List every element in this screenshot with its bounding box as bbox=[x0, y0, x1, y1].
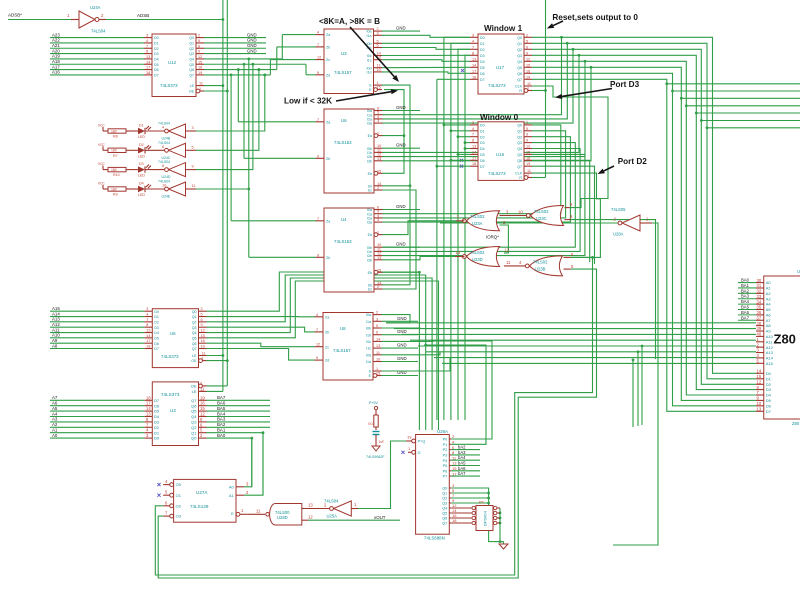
svg-text:19: 19 bbox=[526, 162, 530, 166]
svg-text:14: 14 bbox=[146, 334, 150, 338]
svg-text:D5: D5 bbox=[480, 66, 485, 70]
svg-text:U24A: U24A bbox=[90, 5, 101, 10]
svg-text:A20: A20 bbox=[52, 48, 60, 53]
wire U23A output to U4 Ea bbox=[382, 221, 456, 235]
svg-text:16: 16 bbox=[526, 156, 530, 160]
IC U9 Z80 CPU bbox=[756, 269, 800, 426]
svg-text:15: 15 bbox=[452, 466, 457, 471]
svg-text:Q4: Q4 bbox=[517, 60, 522, 64]
svg-text:19: 19 bbox=[201, 345, 205, 349]
wire memory bus exit 6 bbox=[706, 126, 800, 129]
svg-text:D6: D6 bbox=[480, 159, 485, 163]
svg-text:74LS373: 74LS373 bbox=[161, 354, 179, 359]
wire U8 I0a to band A8 bbox=[382, 315, 411, 323]
svg-text:16: 16 bbox=[200, 401, 205, 406]
svg-text:4: 4 bbox=[316, 313, 318, 317]
wire U26A P0 up bbox=[431, 340, 492, 439]
wire net O2 strobe U23B input6 to U27A O2 bbox=[155, 257, 592, 575]
svg-text:D5: D5 bbox=[154, 336, 159, 340]
svg-text:D7: D7 bbox=[766, 409, 772, 414]
LED D3 bbox=[126, 162, 151, 178]
wire U6 S0 branch bbox=[382, 185, 410, 187]
svg-text:5: 5 bbox=[192, 145, 194, 149]
svg-text:31: 31 bbox=[757, 283, 762, 288]
wire net BA6 to Z80 A6 bbox=[738, 310, 756, 315]
svg-text:3: 3 bbox=[146, 307, 148, 311]
svg-text:U16: U16 bbox=[496, 152, 505, 157]
svg-text:bA7: bA7 bbox=[458, 471, 466, 476]
svg-text:U23C: U23C bbox=[536, 216, 547, 221]
svg-text:13: 13 bbox=[376, 344, 380, 348]
svg-text:A18: A18 bbox=[52, 59, 60, 64]
svg-text:S1: S1 bbox=[368, 288, 372, 292]
unconnected marker U17 D6 bbox=[461, 69, 464, 72]
svg-text:Zb: Zb bbox=[326, 157, 330, 161]
wire net GND from U12 Q2 bbox=[204, 43, 266, 48]
wire U23C input8 dead-end vertical bbox=[571, 220, 656, 359]
svg-text:A14: A14 bbox=[766, 356, 774, 361]
svg-text:BA3: BA3 bbox=[217, 417, 226, 422]
IC U6 74LS153 multiplexer bbox=[316, 107, 383, 194]
svg-text:14: 14 bbox=[146, 406, 151, 411]
svg-text:D6: D6 bbox=[154, 342, 159, 346]
NOR gate U23C 74LS02 bbox=[526, 202, 573, 226]
svg-text:D2: D2 bbox=[154, 320, 159, 324]
IC U17 74LS273 bank register window 1 bbox=[470, 33, 532, 94]
svg-text:Q4: Q4 bbox=[442, 507, 447, 511]
wire dead-end vertical 1 bbox=[632, 359, 635, 428]
svg-text:11: 11 bbox=[376, 351, 380, 355]
svg-text:5: 5 bbox=[198, 39, 200, 43]
wire U3 I1d to Window1 D6 bbox=[382, 72, 470, 73]
svg-text:U28D: U28D bbox=[277, 515, 288, 520]
svg-text:9: 9 bbox=[317, 154, 319, 158]
wire Window0 D2 stub bbox=[458, 136, 470, 138]
svg-text:19: 19 bbox=[200, 395, 205, 400]
inverter U28A 74LS05 bbox=[611, 207, 652, 237]
wire LED row 4 input bbox=[196, 188, 250, 191]
wire net GND on U3 I0a bbox=[382, 26, 420, 32]
svg-text:2: 2 bbox=[377, 285, 379, 289]
svg-text:D1: D1 bbox=[154, 315, 159, 319]
svg-text:Zb: Zb bbox=[326, 46, 330, 50]
wire vertical Q7 branch to U4 Za bbox=[230, 74, 316, 221]
wire data bus vertical D1 bbox=[450, 43, 471, 420]
NOR gate U23D 74LS02 bbox=[455, 247, 500, 267]
svg-text:Ea: Ea bbox=[368, 233, 372, 237]
svg-text:32: 32 bbox=[757, 289, 762, 294]
svg-text:7: 7 bbox=[317, 118, 319, 122]
svg-text:15: 15 bbox=[526, 150, 530, 154]
power VCC flag for RC chain bbox=[369, 401, 378, 415]
svg-text:3: 3 bbox=[376, 317, 378, 321]
svg-text:Z80: Z80 bbox=[792, 421, 800, 426]
wire vertical net ADSB / latch-enable bus bbox=[222, 0, 225, 391]
wire net W0Q2 from U16 Q2 bbox=[382, 137, 570, 222]
wire net GND on U4 I0b bbox=[382, 242, 420, 248]
svg-text:A1: A1 bbox=[766, 286, 772, 291]
wire net BA4 to Z80 A4 bbox=[738, 299, 756, 304]
svg-text:U17: U17 bbox=[496, 65, 505, 70]
svg-text:Q5: Q5 bbox=[192, 336, 197, 340]
svg-text:12: 12 bbox=[526, 57, 530, 61]
svg-text:6: 6 bbox=[377, 44, 379, 48]
svg-text:I0c: I0c bbox=[366, 340, 371, 344]
svg-text:5: 5 bbox=[376, 324, 378, 328]
wire net W1Q4 from U17 Q4 to Z80 D4 bbox=[532, 60, 756, 395]
wire Window0 D5 stub bbox=[457, 153, 470, 156]
wire net A23 bbox=[50, 32, 144, 37]
svg-text:A21: A21 bbox=[52, 43, 60, 48]
svg-text:OE: OE bbox=[189, 90, 195, 94]
svg-text:A13: A13 bbox=[52, 317, 60, 322]
svg-text:Eb: Eb bbox=[368, 172, 372, 176]
wire Window0 D4 stub bbox=[464, 147, 470, 150]
svg-text:14: 14 bbox=[376, 337, 380, 341]
svg-text:D0: D0 bbox=[766, 371, 772, 376]
wire dead-end vertical 2 bbox=[637, 350, 640, 426]
svg-text:1: 1 bbox=[376, 367, 378, 371]
svg-text:D6: D6 bbox=[480, 72, 485, 76]
svg-text:A11: A11 bbox=[52, 327, 60, 332]
svg-text:A13: A13 bbox=[766, 350, 774, 355]
wire U27A A0 vertical from BA0 bbox=[250, 437, 253, 487]
svg-text:Q1: Q1 bbox=[517, 129, 522, 133]
wire U12 LE to ADSB vertical bbox=[204, 84, 224, 87]
wire net W1Q0 from U17 Q0 to Z80 D0 bbox=[532, 36, 756, 373]
svg-text:D7: D7 bbox=[480, 165, 485, 169]
svg-text:U28A: U28A bbox=[613, 232, 624, 237]
svg-text:Q2: Q2 bbox=[442, 497, 447, 501]
wire branch W1Q0 to mux input bbox=[382, 37, 561, 114]
wire branch W1Q3 to mux input bbox=[382, 55, 579, 152]
svg-text:1: 1 bbox=[377, 231, 379, 235]
svg-text:GND: GND bbox=[397, 356, 407, 361]
svg-text:18: 18 bbox=[472, 75, 476, 79]
IC U5 74LS373 address latch high bbox=[144, 307, 206, 367]
svg-text:<8K=A, >8K = B: <8K=A, >8K = B bbox=[319, 17, 380, 26]
svg-text:2: 2 bbox=[377, 186, 379, 190]
wire net ADSB bbox=[106, 13, 223, 20]
svg-text:D1: D1 bbox=[154, 430, 160, 435]
svg-text:40: 40 bbox=[757, 332, 762, 337]
IC U3 74LS157 multiplexer bbox=[316, 27, 383, 93]
svg-text:A6: A6 bbox=[766, 312, 772, 317]
svg-text:A15: A15 bbox=[766, 361, 774, 366]
svg-text:12: 12 bbox=[505, 248, 510, 253]
svg-text:D0: D0 bbox=[480, 36, 485, 40]
svg-text:BA4: BA4 bbox=[741, 299, 750, 304]
svg-text:U4: U4 bbox=[341, 217, 347, 222]
svg-text:P5: P5 bbox=[443, 464, 448, 468]
wire net GND on U4 I0a bbox=[382, 204, 420, 210]
svg-text:Q5: Q5 bbox=[517, 66, 522, 70]
svg-text:P4: P4 bbox=[443, 459, 448, 463]
wire U8 I0c to band A11 bbox=[382, 340, 431, 341]
svg-text:34: 34 bbox=[757, 299, 762, 304]
svg-text:D6: D6 bbox=[154, 68, 159, 72]
wire net A1 bbox=[50, 428, 144, 433]
svg-text:38: 38 bbox=[757, 321, 762, 326]
wire vertical net OE bus from top edge bbox=[226, 0, 228, 386]
wire net A20 bbox=[50, 48, 144, 53]
wire U6 Zb from bus bbox=[244, 157, 316, 159]
svg-text:2: 2 bbox=[201, 307, 203, 311]
svg-text:VCC: VCC bbox=[98, 182, 105, 186]
svg-text:6: 6 bbox=[162, 145, 164, 149]
annotation Low if < 32K with arrow bbox=[284, 89, 398, 105]
svg-text:Q0: Q0 bbox=[189, 36, 194, 40]
wire net A13 band to Z80 bbox=[426, 351, 756, 353]
wire U23A input3 from U23C output bbox=[500, 210, 527, 216]
wire net BA2 from U2 bbox=[207, 422, 271, 427]
wire net PORTD3 U17 CLK to gate U23C input 9 bbox=[532, 86, 608, 208]
svg-text:I1c: I1c bbox=[366, 347, 371, 351]
svg-text:Q7: Q7 bbox=[189, 74, 194, 78]
wire branch W1Q2 to mux input bbox=[382, 49, 573, 123]
svg-text:BA0: BA0 bbox=[217, 433, 226, 438]
IC U4 74LS153 multiplexer bbox=[316, 206, 383, 293]
wire net BA2 to Z80 A2 bbox=[738, 288, 756, 293]
svg-text:GND: GND bbox=[247, 48, 257, 53]
svg-text:U8: U8 bbox=[340, 326, 346, 331]
svg-text:D0: D0 bbox=[480, 124, 485, 128]
wire net A15 bbox=[50, 306, 144, 311]
svg-text:D7: D7 bbox=[154, 398, 160, 403]
svg-text:xOUT: xOUT bbox=[374, 515, 386, 520]
svg-text:3: 3 bbox=[146, 34, 148, 38]
inverter U24C 74LS04 bbox=[145, 141, 196, 160]
svg-text:Q1: Q1 bbox=[192, 315, 197, 319]
svg-text:U24D: U24D bbox=[162, 175, 171, 179]
svg-text:D2: D2 bbox=[480, 135, 485, 139]
svg-text:18: 18 bbox=[472, 162, 476, 166]
wire net BA4 to U26A P4 bbox=[451, 455, 480, 460]
wire net A12 bbox=[50, 322, 144, 327]
svg-text:Q2: Q2 bbox=[517, 48, 522, 52]
svg-text:bA2: bA2 bbox=[458, 445, 466, 450]
svg-text:11: 11 bbox=[527, 169, 531, 173]
wire net A11 bbox=[50, 327, 144, 332]
svg-text:3: 3 bbox=[377, 31, 379, 35]
svg-text:D2: D2 bbox=[154, 425, 160, 430]
svg-text:I3a: I3a bbox=[367, 122, 372, 126]
svg-text:ADSB*: ADSB* bbox=[8, 13, 22, 18]
wire net A21 bbox=[50, 43, 144, 48]
svg-text:12: 12 bbox=[308, 514, 313, 519]
wire net BA5 to U26A P5 bbox=[451, 461, 480, 466]
wire net A9 band to Z80 bbox=[394, 328, 756, 330]
svg-text:180: 180 bbox=[111, 129, 117, 133]
wire net A8 band to Z80 bbox=[386, 322, 756, 324]
svg-text:I3b: I3b bbox=[367, 258, 372, 262]
wire net W0Q4 from U16 Q4 bbox=[382, 149, 580, 252]
svg-text:17: 17 bbox=[472, 69, 476, 73]
svg-text:74LS04: 74LS04 bbox=[91, 29, 106, 34]
svg-text:GND: GND bbox=[247, 32, 257, 37]
svg-text:19: 19 bbox=[407, 435, 412, 440]
svg-text:I1d: I1d bbox=[367, 71, 372, 75]
svg-text:11: 11 bbox=[192, 184, 196, 188]
svg-text:15: 15 bbox=[198, 60, 202, 64]
svg-text:BA1: BA1 bbox=[217, 428, 226, 433]
svg-text:8: 8 bbox=[146, 50, 148, 54]
wire net A2 bbox=[50, 422, 144, 427]
wire net W1Q1 from U17 Q1 to Z80 D1 bbox=[532, 42, 756, 379]
svg-text:I1a: I1a bbox=[366, 320, 371, 324]
wire memory bus exit 2 bbox=[680, 97, 800, 100]
svg-text:A17: A17 bbox=[52, 64, 60, 69]
wire switch common to ground bbox=[499, 508, 504, 543]
wire vertical Q5 branch to U6 Zb bbox=[243, 63, 246, 158]
svg-text:U23B: U23B bbox=[535, 267, 546, 272]
svg-text:bA3: bA3 bbox=[458, 450, 466, 455]
wire data bus vertical D0 bbox=[443, 37, 471, 420]
svg-text:8: 8 bbox=[472, 139, 474, 143]
svg-text:D4: D4 bbox=[766, 393, 772, 398]
svg-text:A3: A3 bbox=[766, 296, 772, 301]
svg-text:4: 4 bbox=[317, 31, 319, 35]
wire net A17 bbox=[50, 64, 144, 69]
wire U12 OE to vertical bus bbox=[204, 90, 229, 93]
svg-text:A3: A3 bbox=[52, 417, 58, 422]
svg-text:6: 6 bbox=[526, 45, 528, 49]
wire net A13 bbox=[50, 317, 144, 322]
svg-text:Q2: Q2 bbox=[192, 320, 197, 324]
svg-text:VCC: VCC bbox=[368, 422, 375, 426]
svg-text:Zb: Zb bbox=[326, 256, 330, 260]
svg-text:74LS153: 74LS153 bbox=[334, 239, 352, 244]
wire data bus vertical D7 bbox=[436, 79, 439, 420]
svg-text:LE: LE bbox=[192, 389, 197, 394]
svg-text:2: 2 bbox=[526, 33, 528, 37]
svg-text:74LS153: 74LS153 bbox=[334, 140, 352, 145]
wire dead-end vertical 3 bbox=[641, 345, 644, 425]
svg-text:4: 4 bbox=[146, 39, 148, 43]
svg-text:17: 17 bbox=[146, 339, 150, 343]
svg-text:Q7: Q7 bbox=[191, 398, 197, 403]
svg-text:I1d: I1d bbox=[366, 360, 371, 364]
svg-text:D3: D3 bbox=[154, 52, 159, 56]
svg-text:9: 9 bbox=[201, 323, 203, 327]
wire net BA5 from U2 bbox=[207, 406, 271, 411]
svg-text:A4: A4 bbox=[52, 411, 58, 416]
inverter U24D 74LS04 bbox=[145, 160, 196, 179]
svg-text:1: 1 bbox=[527, 174, 529, 178]
svg-text:D1: D1 bbox=[480, 129, 485, 133]
svg-text:Q6: Q6 bbox=[192, 342, 197, 346]
svg-text:9: 9 bbox=[316, 356, 318, 360]
svg-text:13: 13 bbox=[146, 55, 150, 59]
svg-text:A12: A12 bbox=[766, 345, 774, 350]
svg-text:A5: A5 bbox=[766, 307, 772, 312]
wire net Q4 (U12) to U3 Za bbox=[204, 35, 316, 59]
svg-text:R8: R8 bbox=[113, 135, 118, 139]
wire U5 Q7 to U8 Zd bbox=[207, 349, 315, 361]
inverter U25A 74LS04 bbox=[324, 498, 358, 518]
wire net ADSB* input bbox=[8, 13, 71, 20]
svg-text:LED: LED bbox=[138, 135, 145, 139]
svg-text:1: 1 bbox=[199, 87, 201, 91]
wire U6 S1 to U4 S1 loop bbox=[382, 190, 416, 289]
svg-text:3: 3 bbox=[192, 126, 194, 130]
wire net A14 band to Z80 bbox=[434, 357, 756, 359]
wire LED row 3 input bbox=[196, 63, 254, 170]
wire U5 LE tap bbox=[207, 354, 225, 357]
wire U23D input11 from U23B output bbox=[504, 260, 526, 266]
wire net GND on U8 pin row 4 bbox=[382, 370, 419, 376]
svg-text:Q0: Q0 bbox=[442, 487, 447, 491]
svg-text:15: 15 bbox=[376, 372, 380, 376]
svg-text:P2: P2 bbox=[443, 448, 448, 452]
wire net GND from U12 Q3 bbox=[204, 48, 266, 53]
svg-text:8: 8 bbox=[146, 323, 148, 327]
wire net Q7 (U12) to U3 Zc bbox=[204, 60, 316, 77]
unconnected marker U26A G bbox=[401, 451, 404, 454]
svg-text:O1: O1 bbox=[176, 493, 182, 498]
svg-text:11: 11 bbox=[256, 508, 261, 513]
svg-text:74LS273: 74LS273 bbox=[488, 83, 506, 88]
svg-text:A1: A1 bbox=[52, 428, 58, 433]
svg-text:A0: A0 bbox=[52, 433, 58, 438]
capacitor C7 bbox=[373, 432, 385, 447]
svg-text:19: 19 bbox=[198, 71, 202, 75]
svg-text:Q6: Q6 bbox=[517, 72, 522, 76]
svg-text:Q0: Q0 bbox=[517, 124, 522, 128]
svg-text:Q1: Q1 bbox=[442, 492, 447, 496]
svg-text:D3: D3 bbox=[154, 326, 159, 330]
NOR gate U23B 74LS02 bbox=[525, 252, 574, 276]
wire net A3 bbox=[50, 417, 144, 422]
svg-text:13: 13 bbox=[456, 250, 461, 255]
svg-text:17: 17 bbox=[472, 156, 476, 160]
wire net A8 bbox=[50, 343, 144, 348]
svg-text:11: 11 bbox=[199, 82, 203, 86]
annotation <8K=A >8K=B with arrow bbox=[319, 17, 399, 82]
svg-text:I1b: I1b bbox=[366, 333, 371, 337]
svg-text:Q0: Q0 bbox=[517, 36, 522, 40]
svg-text:LED: LED bbox=[138, 174, 145, 178]
svg-text:A10: A10 bbox=[766, 334, 774, 339]
svg-text:6: 6 bbox=[201, 318, 203, 322]
wire net GND on U8 pin row 3 bbox=[382, 356, 419, 362]
svg-text:3: 3 bbox=[377, 218, 379, 222]
svg-text:12: 12 bbox=[201, 329, 205, 333]
unconnected marker U27A O0 bbox=[157, 483, 160, 486]
svg-text:9: 9 bbox=[526, 139, 528, 143]
svg-text:D3: D3 bbox=[766, 387, 772, 392]
wire U8 I0b to band A9 bbox=[382, 327, 421, 330]
wire net BA3 to U26A P3 bbox=[451, 450, 480, 455]
svg-text:OE: OE bbox=[191, 384, 197, 389]
svg-text:13: 13 bbox=[472, 57, 476, 61]
svg-text:74LS02: 74LS02 bbox=[470, 250, 485, 255]
svg-text:11: 11 bbox=[506, 260, 511, 265]
wire memory bus exit 5 bbox=[700, 119, 800, 122]
svg-text:bA4: bA4 bbox=[458, 455, 466, 460]
wire U5 Q6 to U8 Zc bbox=[207, 343, 315, 347]
svg-text:Q4: Q4 bbox=[517, 147, 522, 151]
wire U26A P1 up bbox=[424, 344, 486, 445]
wire net BA1 to Z80 A1 bbox=[738, 283, 756, 288]
svg-text:A7: A7 bbox=[766, 318, 772, 323]
svg-text:GND: GND bbox=[396, 143, 406, 148]
wire Window0 D3 stub bbox=[465, 142, 470, 144]
svg-text:Q5: Q5 bbox=[442, 512, 447, 516]
wire memory bus exit 3 bbox=[685, 104, 800, 107]
svg-text:A12: A12 bbox=[52, 322, 60, 327]
power VCC for LED row 4 bbox=[98, 182, 105, 190]
